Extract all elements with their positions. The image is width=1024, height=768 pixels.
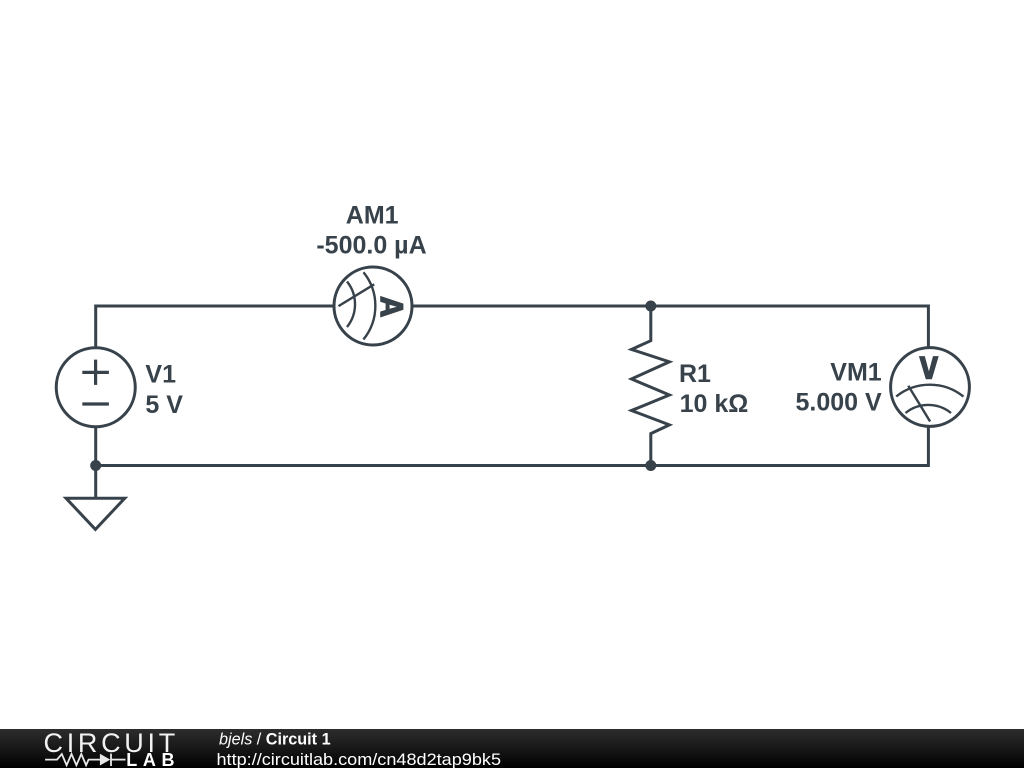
svg-text:-500.0 µA: -500.0 µA bbox=[316, 232, 426, 260]
svg-text:VM1: VM1 bbox=[830, 358, 882, 386]
svg-text:http://circuitlab.com/cn48d2ta: http://circuitlab.com/cn48d2tap9bk5 bbox=[217, 750, 502, 768]
svg-text:bjels / Circuit 1: bjels / Circuit 1 bbox=[219, 730, 331, 749]
svg-text:V1: V1 bbox=[145, 360, 176, 388]
svg-text:AM1: AM1 bbox=[346, 202, 399, 230]
svg-text:5.000 V: 5.000 V bbox=[796, 388, 883, 416]
svg-text:10 kΩ: 10 kΩ bbox=[680, 390, 749, 418]
svg-text:R1: R1 bbox=[679, 360, 711, 388]
svg-text:5 V: 5 V bbox=[145, 391, 183, 419]
svg-text:LAB: LAB bbox=[126, 750, 180, 768]
